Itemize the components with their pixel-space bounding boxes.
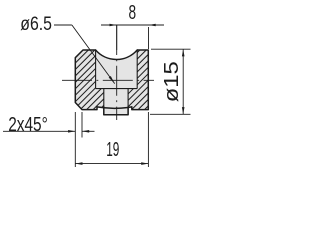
svg-text:ø6.5: ø6.5	[20, 13, 52, 35]
svg-text:19: 19	[106, 139, 119, 161]
svg-text:2x45°: 2x45°	[8, 114, 48, 136]
svg-text:ø15: ø15	[161, 61, 183, 102]
svg-text:8: 8	[129, 2, 137, 24]
